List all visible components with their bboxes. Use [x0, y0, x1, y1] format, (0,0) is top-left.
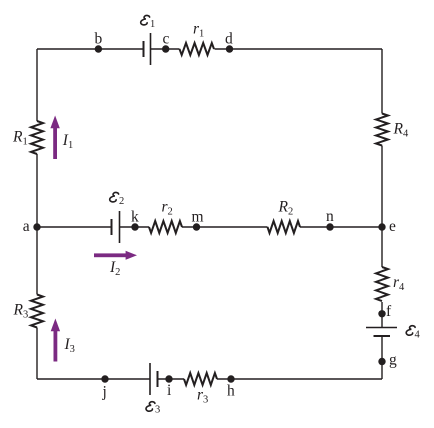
node b — [95, 45, 102, 52]
svg-text:I1: I1 — [62, 132, 73, 151]
wire left side upper — [36, 49, 38, 121]
svg-text:n: n — [326, 208, 334, 225]
battery E4 long plate — [366, 327, 397, 329]
svg-text:R3: R3 — [13, 302, 29, 321]
label E4 — [406, 326, 420, 341]
wire R2 through n to e — [300, 226, 382, 228]
wire r2 through m to R2 — [182, 226, 268, 228]
battery E2 short plate — [111, 219, 113, 235]
svg-text:i: i — [167, 382, 172, 399]
svg-text:2: 2 — [119, 196, 124, 207]
node d — [226, 45, 233, 52]
node e — [378, 223, 385, 230]
svg-text:h: h — [227, 383, 235, 400]
label E1 — [141, 15, 156, 30]
battery E3 long plate — [149, 363, 151, 395]
node h — [227, 375, 234, 382]
node g — [378, 358, 385, 365]
resistor R4 — [376, 114, 388, 146]
svg-text:k: k — [131, 209, 139, 226]
wire middle: a to battery E2 — [37, 226, 112, 228]
svg-text:R2: R2 — [278, 199, 294, 218]
wire r3 through h to bottom-right corner — [217, 378, 382, 380]
wire R3 to bottom-left corner — [36, 328, 38, 380]
svg-text:c: c — [163, 31, 170, 48]
wire left side lower — [36, 227, 38, 295]
svg-text:a: a — [23, 218, 30, 235]
current arrow I1 — [50, 116, 59, 160]
wire r1 to top-right corner — [215, 48, 383, 50]
svg-text:r1: r1 — [193, 21, 204, 40]
resistor R1 — [31, 121, 43, 154]
label E3 — [146, 402, 160, 416]
svg-text:4: 4 — [415, 330, 421, 341]
svg-text:I2: I2 — [109, 259, 120, 278]
svg-text:r4: r4 — [393, 274, 405, 293]
node c — [162, 45, 169, 52]
svg-text:r3: r3 — [197, 387, 208, 406]
svg-text:j: j — [102, 384, 107, 401]
wire battery E2 to r2 — [120, 226, 150, 228]
wire top: a-b-battery — [37, 48, 144, 50]
svg-text:m: m — [192, 209, 204, 226]
svg-text:R4: R4 — [393, 121, 409, 140]
node m — [193, 223, 200, 230]
battery E2 long plate — [119, 211, 121, 243]
node i — [165, 375, 172, 382]
svg-text:r2: r2 — [162, 199, 173, 218]
resistor r2 — [149, 221, 182, 233]
svg-text:3: 3 — [155, 405, 160, 416]
svg-text:e: e — [389, 218, 396, 235]
resistor r1 — [180, 43, 215, 55]
current arrow I3 — [51, 319, 60, 362]
wire r4 to node f — [381, 302, 383, 328]
node n — [326, 223, 333, 230]
current arrow I2 — [94, 251, 137, 260]
svg-text:R1: R1 — [12, 129, 28, 148]
wire R1 to node a — [36, 154, 38, 227]
svg-text:g: g — [389, 352, 397, 369]
svg-text:I3: I3 — [64, 336, 75, 355]
svg-text:1: 1 — [150, 19, 155, 30]
battery E1 short plate — [143, 41, 145, 57]
wire battery E3 to r3 — [158, 378, 185, 380]
node k — [131, 223, 138, 230]
wire battery to r1 — [151, 48, 180, 50]
svg-text:d: d — [225, 31, 233, 48]
resistor r3 — [184, 373, 217, 385]
node a — [33, 223, 40, 230]
resistor R2 — [268, 221, 301, 233]
node j — [101, 375, 108, 382]
resistor R3 — [31, 295, 43, 328]
svg-text:b: b — [95, 31, 103, 48]
resistor r4 — [376, 267, 388, 301]
node f — [378, 310, 385, 317]
wire right side upper — [381, 49, 383, 114]
wire battery E4 to g and corner — [381, 336, 383, 379]
battery E1 long plate — [150, 33, 152, 65]
battery E3 short plate — [157, 371, 159, 387]
svg-text:f: f — [386, 303, 392, 320]
wire R4 to node e — [381, 146, 383, 268]
label E2 — [110, 192, 125, 207]
wire bottom: corner to battery E3 — [37, 378, 150, 380]
battery E4 short plate — [374, 335, 391, 337]
